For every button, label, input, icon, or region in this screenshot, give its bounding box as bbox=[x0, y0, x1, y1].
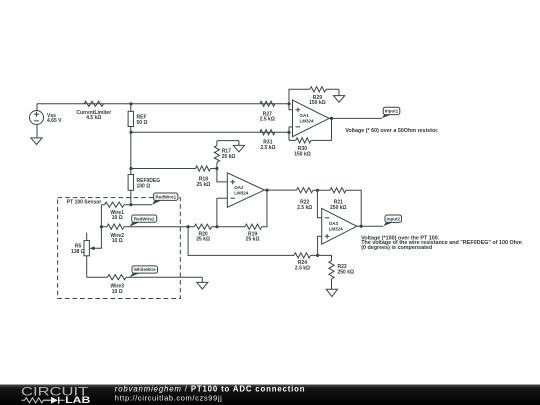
svg-text:(0 degrees) is compensated: (0 degrees) is compensated bbox=[361, 245, 432, 251]
svg-text:25 kΩ: 25 kΩ bbox=[246, 237, 260, 243]
svg-text:138 Ω: 138 Ω bbox=[71, 249, 85, 255]
svg-text:2.5 kΩ: 2.5 kΩ bbox=[260, 117, 275, 123]
svg-text:robvanmieghem / PT100 to ADC c: robvanmieghem / PT100 to ADC connection bbox=[115, 384, 306, 393]
svg-text:RedWire2: RedWire2 bbox=[134, 216, 155, 221]
svg-text:150 kΩ: 150 kΩ bbox=[309, 100, 326, 106]
svg-text:OA1: OA1 bbox=[300, 113, 310, 118]
svg-text:50 Ω: 50 Ω bbox=[137, 120, 148, 126]
svg-text:100 Ω: 100 Ω bbox=[137, 183, 151, 189]
svg-text:250 kΩ: 250 kΩ bbox=[330, 205, 347, 211]
svg-text:LAB: LAB bbox=[65, 395, 90, 405]
svg-text:2.5 kΩ: 2.5 kΩ bbox=[297, 205, 312, 211]
svg-text:25 kΩ: 25 kΩ bbox=[196, 237, 210, 243]
svg-text:OA2: OA2 bbox=[234, 185, 244, 190]
svg-text:Input1: Input1 bbox=[385, 109, 399, 114]
svg-text:2.5 kΩ: 2.5 kΩ bbox=[260, 145, 275, 151]
svg-text:RedWire1: RedWire1 bbox=[155, 195, 176, 200]
svg-text:LM324: LM324 bbox=[329, 227, 344, 232]
svg-text:PT 100 Sensor: PT 100 Sensor bbox=[67, 200, 102, 206]
svg-text:Input2: Input2 bbox=[387, 217, 401, 222]
svg-text:10 Ω: 10 Ω bbox=[112, 215, 123, 221]
svg-text:150 kΩ: 150 kΩ bbox=[294, 151, 311, 157]
svg-text:OA3: OA3 bbox=[329, 221, 339, 226]
svg-text:25 kΩ: 25 kΩ bbox=[222, 154, 236, 160]
svg-text:WhiteWire: WhiteWire bbox=[134, 267, 156, 272]
svg-text:Voltage (* 60) over a 50Ohm re: Voltage (* 60) over a 50Ohm resistor. bbox=[345, 128, 439, 134]
svg-text:http://circuitlab.com/czs99jj: http://circuitlab.com/czs99jj bbox=[115, 394, 223, 403]
svg-text:10 Ω: 10 Ω bbox=[112, 238, 123, 244]
svg-text:2.5 kΩ: 2.5 kΩ bbox=[295, 266, 310, 272]
svg-text:4.65 V: 4.65 V bbox=[47, 118, 62, 124]
svg-text:LM324: LM324 bbox=[300, 119, 315, 124]
svg-text:25 kΩ: 25 kΩ bbox=[197, 182, 211, 188]
svg-text:10 Ω: 10 Ω bbox=[112, 289, 123, 295]
svg-text:250 kΩ: 250 kΩ bbox=[338, 269, 355, 275]
svg-text:4.5 kΩ: 4.5 kΩ bbox=[86, 115, 101, 121]
svg-text:LM324: LM324 bbox=[234, 190, 249, 195]
